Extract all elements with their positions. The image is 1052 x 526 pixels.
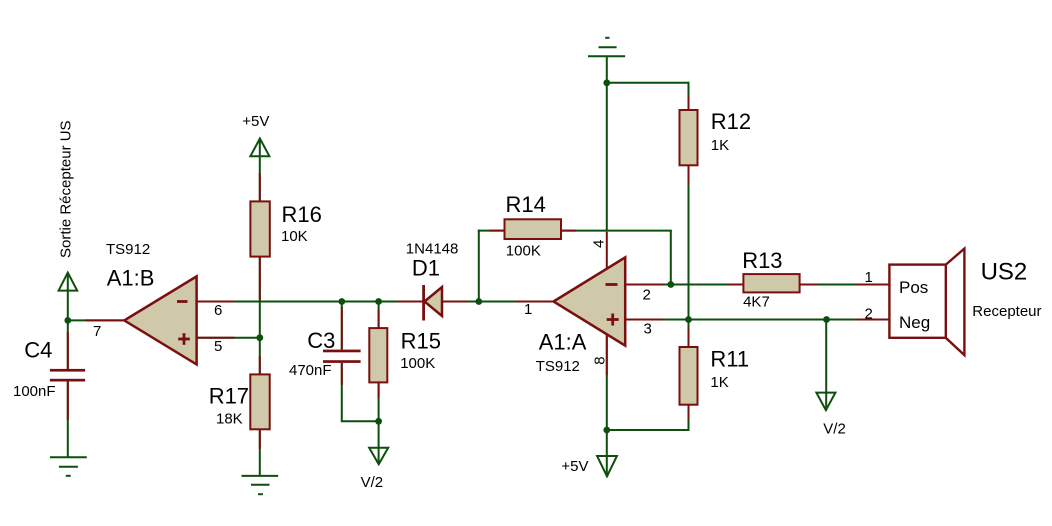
svg-text:18K: 18K: [216, 411, 243, 428]
svg-text:1N4148: 1N4148: [406, 241, 459, 258]
svg-text:US2: US2: [981, 259, 1028, 286]
svg-text:R14: R14: [506, 192, 546, 217]
svg-text:100K: 100K: [506, 243, 541, 260]
svg-text:A1:A: A1:A: [539, 329, 587, 354]
svg-text:Neg: Neg: [899, 313, 930, 332]
svg-text:R17: R17: [209, 384, 249, 409]
svg-text:4K7: 4K7: [743, 294, 770, 311]
svg-text:A1:B: A1:B: [107, 266, 155, 291]
svg-text:7: 7: [93, 323, 101, 340]
svg-text:100nF: 100nF: [13, 383, 56, 400]
svg-text:2: 2: [865, 306, 873, 323]
svg-text:C3: C3: [307, 328, 335, 353]
svg-text:4: 4: [591, 240, 608, 248]
svg-text:V/2: V/2: [823, 421, 846, 438]
svg-text:3: 3: [644, 321, 652, 338]
svg-text:R12: R12: [711, 109, 751, 134]
svg-text:2: 2: [643, 287, 651, 304]
svg-text:D1: D1: [412, 256, 440, 281]
svg-text:1: 1: [524, 301, 532, 318]
svg-text:10K: 10K: [281, 228, 308, 245]
svg-text:Recepteur: Recepteur: [972, 303, 1041, 320]
svg-text:1K: 1K: [710, 374, 728, 391]
svg-text:R11: R11: [710, 347, 749, 372]
svg-text:Pos: Pos: [899, 278, 928, 297]
svg-text:6: 6: [214, 302, 222, 319]
svg-text:V/2: V/2: [361, 474, 384, 491]
svg-text:C4: C4: [24, 338, 52, 363]
svg-text:1K: 1K: [711, 137, 729, 154]
svg-text:+5V: +5V: [242, 113, 269, 130]
svg-text:R15: R15: [401, 329, 441, 354]
svg-text:+5V: +5V: [561, 458, 588, 475]
svg-text:Sortie Récepteur US: Sortie Récepteur US: [58, 120, 75, 258]
svg-text:R13: R13: [742, 248, 782, 273]
svg-text:8: 8: [592, 356, 609, 364]
svg-text:1: 1: [865, 269, 873, 286]
svg-text:TS912: TS912: [536, 358, 580, 375]
svg-text:R16: R16: [282, 202, 322, 227]
svg-text:470nF: 470nF: [289, 362, 332, 379]
svg-text:5: 5: [214, 338, 222, 355]
svg-text:TS912: TS912: [106, 241, 150, 258]
svg-text:100K: 100K: [400, 355, 435, 372]
